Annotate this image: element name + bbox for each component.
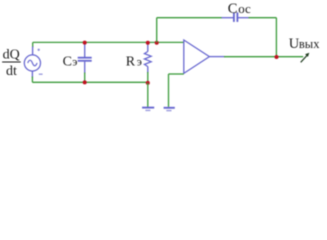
wire: feedback left vertical (156, 18, 158, 43)
ground 2 (op-amp non-inverting input) (164, 107, 175, 109)
label Coc (228, 1, 251, 17)
wire: source bottom lead (31, 71, 33, 78)
node: output/feedback junction (275, 55, 279, 59)
wire: op-amp non-inverting input from ground (169, 73, 184, 75)
capacitor C3 (Cэ) (84, 42, 86, 57)
label Rэ (126, 55, 142, 70)
svg-text:dt: dt (6, 64, 17, 79)
node: capacitor bottom junction (83, 80, 87, 84)
wire: source top lead (32, 42, 34, 47)
wire: feedback top right segment (249, 17, 277, 19)
node: capacitor top junction (83, 41, 87, 45)
wire: output to terminal (224, 56, 303, 58)
output terminal arrow (301, 55, 308, 62)
source plus dot marker (38, 49, 40, 51)
source minus dash marker (39, 73, 43, 75)
svg-text:C: C (63, 55, 72, 70)
ground 1 (bottom rail) (142, 107, 154, 109)
svg-text:э: э (137, 55, 142, 69)
op-amp U1 (184, 40, 210, 73)
label dQ/dt (3, 48, 20, 80)
node: resistor bottom junction (146, 81, 150, 85)
source V1 (sine source dQ/dt) (24, 55, 40, 71)
svg-text:э: э (72, 55, 77, 69)
capacitor Coc feedback (222, 17, 234, 19)
svg-text:R: R (126, 55, 136, 70)
wire: feedback top left segment (157, 17, 222, 19)
resistor R3 (Rэ) (147, 43, 149, 52)
wire: resistor bottom to ground (147, 83, 149, 107)
label Cэ (63, 55, 78, 70)
label Uвых (289, 36, 320, 52)
svg-text:вых: вых (299, 37, 320, 51)
svg-text:ос: ос (238, 1, 251, 16)
wire: feedback right vertical (275, 18, 277, 57)
wire: op-amp output lead (209, 56, 225, 58)
svg-text:C: C (228, 1, 238, 17)
node: feedback tap junction (155, 41, 159, 45)
svg-text:dQ: dQ (3, 48, 20, 63)
node: resistor top junction (146, 41, 150, 45)
wire: bottom rail from source to resistor ground junction (32, 81, 147, 83)
wire: top rail from source to op-amp inverting input (33, 41, 184, 43)
